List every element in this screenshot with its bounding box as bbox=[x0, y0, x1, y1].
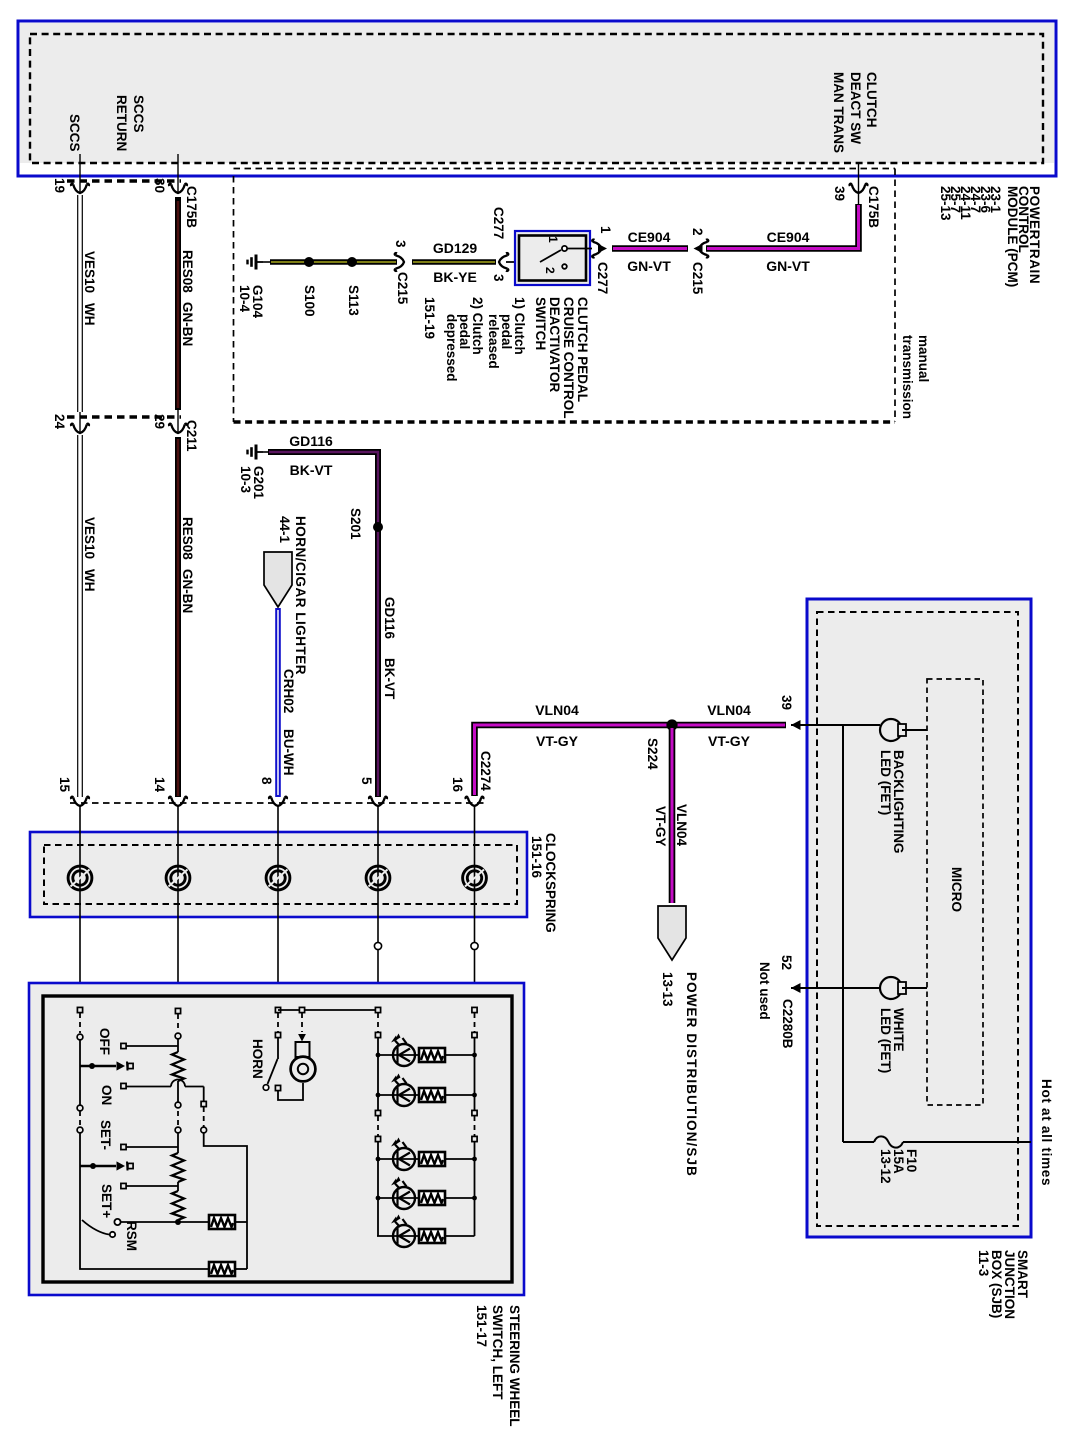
label VLN04 VT-GY (left) bbox=[535, 702, 579, 749]
wire through clockspring (pin 14) bbox=[177, 806, 179, 1008]
label GD116 BK-VT (vertical) bbox=[382, 597, 397, 700]
svg-text:WH: WH bbox=[82, 303, 97, 326]
svg-text:GN-BN: GN-BN bbox=[180, 302, 195, 346]
label CLUTCH PEDAL CRUISE CONTROL DEACTIVATOR SWITCH bbox=[533, 297, 590, 419]
wire col1 upper bbox=[79, 1040, 81, 1105]
wire RES08 GN-BN (lower segment) bbox=[175, 437, 181, 797]
connector arrow pin 5 bbox=[369, 797, 387, 806]
wire led-right group2 bbox=[474, 1142, 476, 1236]
fuse F10 15A bbox=[843, 1136, 1031, 1147]
pin 39 bbox=[832, 186, 847, 201]
connector arrow pin 29 bbox=[169, 410, 187, 433]
node col2 circle bbox=[175, 1033, 181, 1039]
label C277 (pin 3 side) bbox=[491, 207, 506, 239]
wire col2 through hop bbox=[177, 1081, 179, 1105]
svg-text:25-13: 25-13 bbox=[938, 186, 953, 221]
wire through clockspring (pin 16) bbox=[474, 806, 476, 1008]
node col2 circle 3 bbox=[175, 1127, 181, 1133]
wire RES08 GN-BN (upper segment) bbox=[175, 197, 181, 410]
connector C175B dashed line bbox=[67, 179, 181, 182]
svg-text:HORN: HORN bbox=[250, 1039, 265, 1079]
resistor R2 bbox=[172, 1153, 184, 1182]
box manual transmission (dashed) bbox=[234, 169, 896, 423]
svg-text:GN-VT: GN-VT bbox=[627, 258, 671, 274]
node col1 circle 2 bbox=[77, 1105, 83, 1111]
wire col2 bottom junction bbox=[175, 1219, 181, 1225]
label RSM bbox=[124, 1221, 139, 1251]
svg-text:manual: manual bbox=[916, 335, 931, 382]
svg-text:GD129: GD129 bbox=[433, 240, 478, 256]
LED D2 bbox=[377, 1074, 431, 1107]
wire col2 mid bbox=[177, 1133, 179, 1153]
node col3 circle bbox=[201, 1127, 207, 1133]
junction dot OFF feed bbox=[80, 1063, 116, 1069]
wire col2 top bbox=[177, 1039, 179, 1052]
pin 2 (C215) bbox=[690, 228, 705, 236]
wire VES10 WH (upper segment) bbox=[77, 195, 83, 412]
splice S201 bbox=[373, 522, 383, 532]
wire col2 dashed entry bbox=[177, 1014, 179, 1032]
label VLN04 VT-GY (right) bbox=[707, 702, 751, 749]
label C277 (pin 1 side) bbox=[595, 262, 610, 294]
svg-text:GD116: GD116 bbox=[382, 597, 397, 640]
ground G201 bbox=[248, 445, 264, 460]
connector arrow pin 19 bbox=[71, 154, 89, 193]
node col2 entry square bbox=[175, 1008, 180, 1013]
connector arrow pin 39 (C175B) bbox=[850, 163, 868, 204]
wire through clockspring (pin 5) bbox=[377, 806, 379, 1008]
wire horn top row bbox=[278, 1007, 378, 1012]
wire led-right dashed entry bbox=[474, 1013, 476, 1032]
svg-text:C2274: C2274 bbox=[478, 751, 493, 791]
label HORN bbox=[250, 1039, 265, 1079]
node horn switch square bbox=[275, 1032, 280, 1037]
junction dot SET feed bbox=[80, 1163, 116, 1169]
svg-text:SET+: SET+ bbox=[99, 1184, 114, 1218]
clockspring coil 1 bbox=[68, 866, 92, 890]
wire through clockspring (pin 8) bbox=[277, 806, 279, 1008]
transistor white LED FET bbox=[880, 977, 927, 999]
label BACKLIGHTING LED (FET) bbox=[878, 750, 906, 854]
connector arrow pin 8 bbox=[269, 797, 287, 806]
svg-text:LED (FET): LED (FET) bbox=[878, 750, 893, 815]
module MICRO box bbox=[927, 679, 983, 1105]
svg-text:C2280B: C2280B bbox=[780, 999, 795, 1049]
svg-text:CLOCKSPRING: CLOCKSPRING bbox=[543, 833, 558, 933]
svg-text:SET-: SET- bbox=[98, 1120, 113, 1150]
wire VLN04 VT-GY (horizontal + drop to C2274) bbox=[475, 725, 787, 796]
svg-text:DEACTIVATOR: DEACTIVATOR bbox=[547, 297, 562, 393]
label C175B bbox=[184, 186, 199, 228]
connector circle (wire 16) bbox=[471, 942, 478, 949]
pin 8 (clockspring connector) bbox=[259, 777, 274, 785]
label G104 10-4 bbox=[237, 285, 265, 319]
svg-text:Hot at all times: Hot at all times bbox=[1039, 1079, 1054, 1186]
node col3 square bbox=[201, 1101, 206, 1106]
svg-text:C215: C215 bbox=[690, 262, 705, 295]
pin 3 (C277) bbox=[491, 274, 506, 282]
svg-text:released: released bbox=[486, 314, 501, 369]
wire CRH02 BU-WH bbox=[275, 608, 281, 797]
LED D4 bbox=[377, 1177, 431, 1210]
pin 14 (clockspring connector) bbox=[152, 777, 167, 793]
junction dots row 2 bbox=[376, 1093, 477, 1098]
resistor RL5 bbox=[419, 1229, 475, 1243]
label manual transmission bbox=[900, 335, 931, 419]
pin 5 (clockspring connector) bbox=[359, 777, 374, 785]
label CLOCKSPRING 151-16 bbox=[529, 833, 558, 933]
resistor RL2 bbox=[419, 1088, 475, 1102]
node col1 circle 3 bbox=[77, 1127, 83, 1133]
svg-text:VT-GY: VT-GY bbox=[653, 806, 668, 847]
wire RSM row bbox=[121, 1221, 208, 1223]
wire SET- output row bbox=[121, 1144, 178, 1149]
wire SET+ output row bbox=[121, 1183, 178, 1188]
wire into switch bbox=[506, 261, 540, 263]
connector C215 pin 2 arrow bbox=[694, 240, 709, 258]
wire led-right dashed mid bbox=[474, 1116, 476, 1136]
pin 52 bbox=[779, 955, 794, 970]
splice S113 bbox=[347, 257, 357, 267]
node col2 circle 2 bbox=[175, 1102, 181, 1108]
svg-text:13-12: 13-12 bbox=[878, 1149, 893, 1184]
label STEERING WHEEL SWITCH, LEFT 151-17 bbox=[474, 1305, 522, 1427]
svg-text:transmission: transmission bbox=[900, 335, 915, 419]
svg-text:VLN04: VLN04 bbox=[674, 804, 689, 847]
svg-text:3: 3 bbox=[393, 240, 408, 248]
connector arrow pin 16 bbox=[466, 797, 484, 806]
node led-left square 4 bbox=[375, 1136, 380, 1141]
svg-text:5: 5 bbox=[359, 777, 374, 785]
connector C215 pin 3 arrow bbox=[395, 253, 404, 271]
label POWERTRAIN CONTROL MODULE (PCM) bbox=[938, 186, 1042, 287]
pin 29 bbox=[152, 414, 167, 429]
label G201 10-3 bbox=[238, 466, 266, 500]
connector arrow pin 15 bbox=[71, 797, 89, 806]
connector arrow pin 30 bbox=[169, 154, 187, 193]
junction dots row 3 bbox=[376, 1157, 477, 1162]
label Not used bbox=[757, 962, 772, 1020]
resistor R5 (bottom row) bbox=[209, 1262, 247, 1276]
svg-text:BK-VT: BK-VT bbox=[290, 462, 333, 478]
node led-right square 3 bbox=[472, 1110, 477, 1115]
connector arrow pin 14 bbox=[169, 797, 187, 806]
svg-text:3: 3 bbox=[491, 274, 506, 282]
component clockspring box bbox=[30, 832, 527, 917]
svg-text:CE904: CE904 bbox=[767, 229, 810, 245]
LED D3 bbox=[377, 1138, 431, 1171]
wire col1 dashed entry bbox=[79, 1013, 81, 1033]
svg-text:29: 29 bbox=[152, 414, 167, 429]
svg-text:LED (FET): LED (FET) bbox=[878, 1008, 893, 1073]
label MICRO bbox=[949, 867, 964, 912]
connector arrow pin 39 (SJB) bbox=[791, 720, 880, 730]
svg-text:52: 52 bbox=[779, 955, 794, 970]
svg-text:8: 8 bbox=[259, 777, 274, 785]
connector C211 dashed line bbox=[67, 415, 181, 418]
module smart junction box bbox=[807, 599, 1031, 1237]
pin 1 (C277) bbox=[598, 226, 613, 234]
svg-text:GN-VT: GN-VT bbox=[766, 258, 810, 274]
node led-right square 2 bbox=[472, 1032, 477, 1037]
wire OFF output row bbox=[121, 1043, 178, 1048]
wire GD129 BK-YE bbox=[263, 261, 496, 263]
svg-text:14: 14 bbox=[152, 777, 167, 793]
connector C2274 pin 16 label bbox=[478, 751, 493, 791]
svg-text:2: 2 bbox=[543, 267, 557, 274]
resistor R4 (RSM row) bbox=[209, 1215, 247, 1229]
resistor R1 bbox=[172, 1052, 184, 1081]
label ON bbox=[99, 1085, 114, 1105]
svg-text:151-19: 151-19 bbox=[422, 297, 437, 339]
wire col3 riser bbox=[203, 1087, 205, 1102]
svg-text:C175B: C175B bbox=[866, 186, 881, 228]
wire col1 dashed mid bbox=[79, 1111, 81, 1127]
label SMART JUNCTION BOX (SJB) 11-3 bbox=[976, 1250, 1030, 1319]
pin 24 bbox=[52, 414, 67, 430]
svg-text:SWITCH, LEFT: SWITCH, LEFT bbox=[490, 1305, 505, 1400]
label C215 bbox=[395, 272, 410, 305]
svg-text:VT-GY: VT-GY bbox=[536, 733, 579, 749]
svg-text:C175B: C175B bbox=[184, 186, 199, 228]
wire led-left dashed mid bbox=[377, 1116, 379, 1136]
wire col3 dashed bbox=[203, 1107, 205, 1127]
splice S224 bbox=[666, 719, 677, 730]
wire FET rail bbox=[842, 725, 844, 1142]
pin 3 (C215) bbox=[393, 240, 408, 248]
connector arrow pin 52 (not used) bbox=[791, 983, 880, 993]
label S100 bbox=[302, 285, 317, 317]
svg-text:10-4: 10-4 bbox=[237, 285, 252, 313]
label RES08 GN-BN (lower) bbox=[180, 517, 195, 613]
switch U1 clutch pedal cruise control deactivator box bbox=[515, 231, 590, 285]
svg-text:MAN TRANS: MAN TRANS bbox=[831, 72, 846, 153]
label WHITE LED (FET) bbox=[878, 1008, 906, 1073]
resistor RL4 bbox=[419, 1191, 475, 1205]
label SET- bbox=[98, 1120, 113, 1150]
svg-text:19: 19 bbox=[52, 178, 67, 193]
wire led-right group1 bbox=[474, 1038, 476, 1110]
node col1 circle bbox=[77, 1034, 83, 1040]
LED D1 bbox=[377, 1034, 431, 1067]
label C175B (pin 39) bbox=[866, 186, 881, 228]
svg-text:S113: S113 bbox=[346, 285, 361, 316]
wire ON output row with hop bbox=[121, 1080, 204, 1089]
connector circle (wire 5) bbox=[374, 942, 381, 949]
switch horn lever bbox=[263, 1038, 280, 1091]
svg-text:VT-GY: VT-GY bbox=[708, 733, 751, 749]
pin 15 (clockspring connector) bbox=[57, 777, 72, 793]
svg-text:VLN04: VLN04 bbox=[535, 702, 579, 718]
svg-text:15: 15 bbox=[57, 777, 72, 793]
svg-text:151-17: 151-17 bbox=[474, 1305, 489, 1347]
wire led-left group1 bbox=[377, 1038, 379, 1110]
label GD116 BK-VT (horizontal) bbox=[289, 433, 333, 478]
component steering wheel switch box bbox=[29, 983, 524, 1295]
clockspring coil 5 bbox=[463, 866, 487, 890]
svg-text:MICRO: MICRO bbox=[949, 867, 964, 912]
svg-text:MODULE (PCM): MODULE (PCM) bbox=[1005, 186, 1020, 287]
svg-text:C215: C215 bbox=[395, 272, 410, 305]
svg-text:CLUTCH: CLUTCH bbox=[864, 72, 879, 128]
label SET+ bbox=[99, 1184, 114, 1218]
svg-text:10-3: 10-3 bbox=[238, 466, 253, 494]
svg-text:VES10: VES10 bbox=[82, 251, 97, 293]
label C2280B bbox=[780, 999, 795, 1049]
wire CE904 GN-VT (left segment) bbox=[612, 245, 688, 252]
svg-text:SCCS: SCCS bbox=[67, 114, 82, 152]
svg-text:VLN04: VLN04 bbox=[707, 702, 751, 718]
junction dots row 1 bbox=[376, 1053, 477, 1058]
svg-text:24: 24 bbox=[52, 414, 67, 430]
wire col3 to rail bbox=[204, 1133, 247, 1269]
wire col2 dashed mid bbox=[177, 1111, 179, 1127]
module PCM box bbox=[18, 21, 1056, 176]
svg-text:44-1: 44-1 bbox=[277, 516, 292, 544]
node led-right square 4 bbox=[472, 1136, 477, 1141]
wire horn bottom bbox=[278, 1083, 303, 1100]
clockspring coil 3 bbox=[266, 866, 290, 890]
svg-text:RES08: RES08 bbox=[180, 250, 195, 293]
resistor RL1 bbox=[419, 1048, 475, 1062]
label S224 bbox=[645, 738, 660, 770]
label GD129 BK-YE bbox=[433, 240, 478, 285]
node led-left square 2 bbox=[375, 1032, 380, 1037]
wire col1 lower bbox=[80, 1133, 208, 1269]
switch lever bbox=[540, 246, 592, 269]
pin 30 bbox=[152, 178, 167, 193]
connector C277 pin 1 arrow bbox=[592, 240, 607, 258]
svg-text:Not used: Not used bbox=[757, 962, 772, 1020]
wire GD116 BK-VT (horizontal + riser) bbox=[263, 452, 378, 797]
svg-text:11-3: 11-3 bbox=[976, 1250, 991, 1277]
svg-text:S201: S201 bbox=[348, 508, 363, 540]
node col1 entry square bbox=[77, 1007, 82, 1012]
label CE904 GN-VT (right) bbox=[766, 229, 810, 274]
connector C277 pin 3 arrow bbox=[499, 253, 508, 271]
svg-text:39: 39 bbox=[832, 186, 847, 201]
node led-right entry square bbox=[472, 1007, 477, 1012]
label C211 bbox=[184, 420, 199, 452]
label HORN/CIGAR LIGHTER 44-1 bbox=[277, 516, 308, 675]
LED D5 bbox=[377, 1215, 431, 1248]
clockspring coil 4 bbox=[366, 866, 390, 890]
svg-text:GD116: GD116 bbox=[289, 433, 333, 449]
label VES10 WH (upper) bbox=[82, 251, 97, 326]
label S201 bbox=[348, 508, 363, 540]
svg-text:BU-WH: BU-WH bbox=[281, 729, 296, 776]
svg-text:RSM: RSM bbox=[124, 1221, 139, 1251]
label SCCS (PCM pin 19) bbox=[67, 114, 82, 152]
wire CE904 GN-VT (right segment + riser to pin 39) bbox=[706, 204, 859, 249]
svg-text:16: 16 bbox=[450, 777, 465, 793]
svg-text:CLUTCH PEDAL: CLUTCH PEDAL bbox=[575, 297, 590, 402]
splice S100 bbox=[304, 257, 314, 267]
svg-text:GN-BN: GN-BN bbox=[180, 569, 195, 613]
pin 19 bbox=[52, 178, 67, 193]
svg-text:SWITCH: SWITCH bbox=[533, 297, 548, 350]
svg-text:13-13: 13-13 bbox=[660, 972, 675, 1007]
resistor RL3 bbox=[419, 1152, 475, 1166]
wire through clockspring (pin 15) bbox=[79, 806, 81, 1008]
svg-text:SCCS: SCCS bbox=[131, 95, 146, 133]
svg-text:CRUISE CONTROL: CRUISE CONTROL bbox=[561, 297, 576, 419]
svg-text:depressed: depressed bbox=[444, 314, 459, 382]
wire led-left dashed entry bbox=[377, 1013, 379, 1032]
svg-text:STEERING WHEEL: STEERING WHEEL bbox=[507, 1305, 522, 1427]
label Hot at all times bbox=[1039, 1079, 1054, 1186]
contact arrow SET bbox=[117, 1161, 134, 1170]
pin 2 label (inside switch) bbox=[543, 267, 557, 274]
svg-text:C277: C277 bbox=[595, 262, 610, 294]
note 1) Clutch pedal released 2) Clutch pedal depressed 151-19 bbox=[422, 297, 527, 382]
pin 16 (clockspring connector) bbox=[450, 777, 465, 793]
svg-text:RETURN: RETURN bbox=[114, 95, 129, 151]
svg-text:HORN/CIGAR LIGHTER: HORN/CIGAR LIGHTER bbox=[293, 516, 308, 675]
wire col2 between R2 R3 bbox=[177, 1182, 179, 1191]
label F10 15A 13-12 bbox=[878, 1149, 919, 1184]
svg-text:BK-YE: BK-YE bbox=[433, 269, 477, 285]
transistor backlighting LED FET bbox=[880, 719, 927, 741]
label CE904 GN-VT (left) bbox=[627, 229, 671, 274]
junction dots row 4 bbox=[376, 1196, 477, 1201]
svg-text:S100: S100 bbox=[302, 285, 317, 317]
label VLN04 VT-GY (drop) bbox=[653, 804, 689, 847]
node horn entry square bbox=[275, 1007, 280, 1012]
svg-text:CE904: CE904 bbox=[628, 229, 671, 245]
label CLUTCH DEACT SW MAN TRANS (PCM pin 39) bbox=[831, 72, 879, 153]
svg-text:151-16: 151-16 bbox=[529, 836, 544, 879]
clockspring coil 2 bbox=[166, 866, 190, 890]
pin 1 label (inside switch) bbox=[546, 236, 560, 243]
node led-left entry square bbox=[375, 1007, 380, 1012]
svg-text:ON: ON bbox=[99, 1085, 114, 1105]
wire horn coil dashed feed bbox=[298, 1013, 306, 1042]
svg-text:VES10: VES10 bbox=[82, 517, 97, 559]
svg-text:DEACT SW: DEACT SW bbox=[848, 72, 863, 144]
switch RSM lever bbox=[82, 1219, 121, 1237]
label CRH02 BU-WH bbox=[281, 669, 296, 776]
label RES08 GN-BN (upper) bbox=[180, 250, 195, 346]
svg-text:C277: C277 bbox=[491, 207, 506, 239]
off-page connector POWER DISTRIBUTION/SJB bbox=[658, 906, 686, 960]
contact arrow OFF bbox=[117, 1061, 134, 1070]
label S113 bbox=[346, 285, 361, 316]
wire led-left group2 bbox=[377, 1142, 379, 1236]
wire VLN04 VT-GY (drop to power distribution) bbox=[669, 728, 676, 903]
svg-text:CRH02: CRH02 bbox=[281, 669, 296, 713]
svg-text:1: 1 bbox=[546, 236, 560, 243]
ground G104 bbox=[248, 255, 264, 270]
label POWER DISTRIBUTION/SJB 13-13 bbox=[660, 972, 699, 1177]
component horn bbox=[291, 1042, 316, 1081]
svg-text:POWER DISTRIBUTION/SJB: POWER DISTRIBUTION/SJB bbox=[684, 972, 699, 1177]
svg-text:WH: WH bbox=[82, 569, 97, 592]
resistor R3 bbox=[172, 1191, 184, 1220]
svg-text:RES08: RES08 bbox=[180, 517, 195, 560]
pin 39 (SJB) bbox=[779, 695, 794, 710]
connector arrow pin 24 bbox=[71, 412, 89, 433]
wire horn switch dashed bbox=[277, 1013, 279, 1032]
svg-text:30: 30 bbox=[152, 178, 167, 193]
label OFF bbox=[97, 1028, 112, 1055]
label VES10 WH (lower) bbox=[82, 517, 97, 592]
connector line (clockspring pins) bbox=[70, 802, 484, 804]
svg-text:OFF: OFF bbox=[97, 1028, 112, 1055]
svg-text:2: 2 bbox=[690, 228, 705, 236]
svg-text:1: 1 bbox=[598, 226, 613, 234]
label SCCS RETURN (PCM pin 30) bbox=[114, 95, 146, 151]
